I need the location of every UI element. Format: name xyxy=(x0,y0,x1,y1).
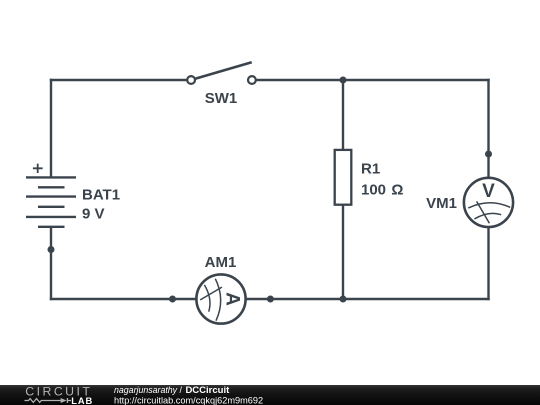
wire: middle branch bottom (resistor R1 to bottom wire) xyxy=(342,205,344,299)
svg-text:nagarjunsarathy / DCCircuit: nagarjunsarathy / DCCircuit xyxy=(114,385,230,396)
svg-text:SW1: SW1 xyxy=(205,90,238,107)
svg-text:9 V: 9 V xyxy=(82,206,105,223)
svg-text:100 Ω: 100 Ω xyxy=(361,182,403,199)
wire: bottom horizontal left (ammeter AM1 left terminal to bottom-left corner) xyxy=(50,298,197,300)
svg-text:http://circuitlab.com/cqkqj62m: http://circuitlab.com/cqkqj62m9m692 xyxy=(114,395,263,405)
junction node above voltmeter xyxy=(485,151,492,158)
svg-text:A: A xyxy=(221,292,242,306)
wire: bottom horizontal right (corner to ammeter AM1 right terminal) xyxy=(246,298,490,300)
junction node right of ammeter xyxy=(267,296,274,303)
wire: right vertical bottom (voltmeter VM1 to bottom-right corner) xyxy=(487,227,489,300)
wire: middle branch top (top wire to resistor R1) xyxy=(342,80,344,150)
svg-text:VM1: VM1 xyxy=(426,195,457,212)
CircuitLab logo resistor zigzag and diode xyxy=(25,399,72,403)
resistor R1 xyxy=(335,150,352,205)
voltmeter VM1 xyxy=(464,178,513,227)
wire: right vertical top (corner to voltmeter VM1) xyxy=(487,79,489,178)
junction node below battery xyxy=(48,246,55,253)
wire: top horizontal right (switch SW1 right terminal to top-right corner) xyxy=(257,79,490,81)
svg-text:R1: R1 xyxy=(361,161,380,178)
svg-text:LAB: LAB xyxy=(71,396,93,405)
footer bar xyxy=(0,385,540,405)
svg-text:AM1: AM1 xyxy=(205,254,237,271)
wire: left vertical bottom (battery to bottom-left corner) xyxy=(50,227,52,300)
ammeter AM1 xyxy=(196,274,245,323)
svg-text:BAT1: BAT1 xyxy=(82,186,120,203)
junction node left of ammeter xyxy=(169,296,176,303)
wire: top horizontal left (corner to switch SW1 left terminal) xyxy=(50,79,187,81)
svg-text:V: V xyxy=(482,181,495,202)
switch SW1 xyxy=(187,62,256,84)
battery BAT1 xyxy=(26,164,76,227)
junction node top of resistor branch xyxy=(340,77,347,84)
junction node bottom of resistor branch xyxy=(340,296,347,303)
wire: left vertical top (corner to battery) xyxy=(50,79,52,178)
